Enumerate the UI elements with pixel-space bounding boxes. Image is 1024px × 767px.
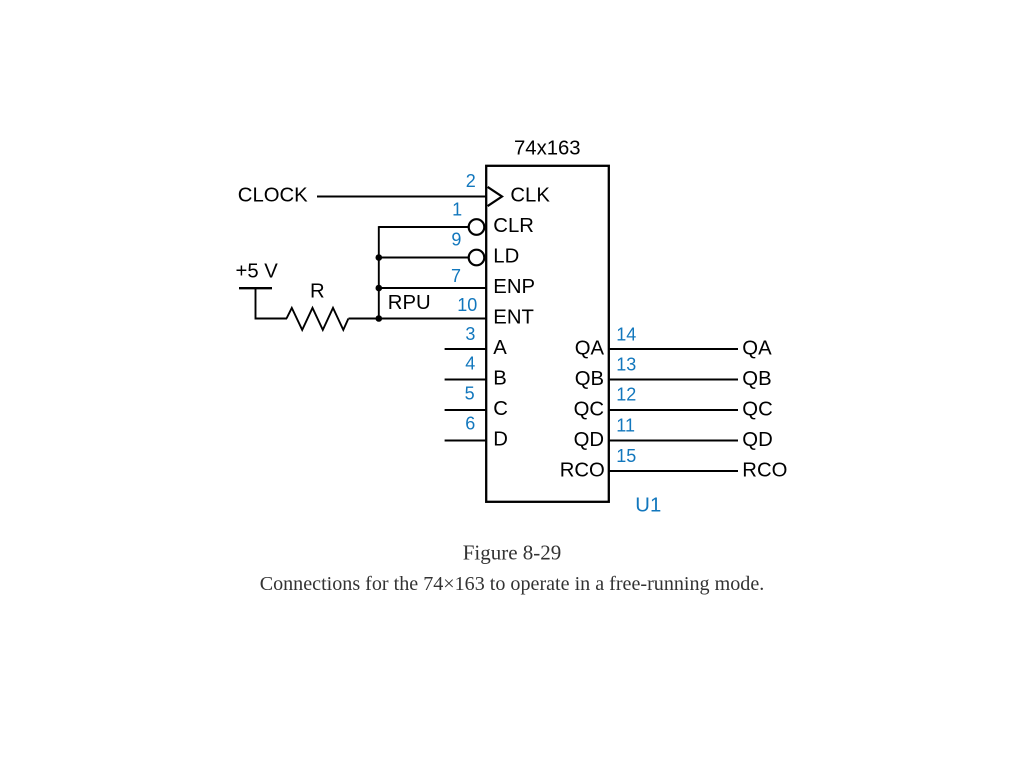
resistor R zigzag	[287, 308, 349, 330]
svg-text:4: 4	[465, 353, 475, 373]
svg-text:QC: QC	[742, 399, 772, 421]
svg-text:QB: QB	[742, 368, 771, 390]
wire bus to ENP	[379, 287, 487, 289]
wire supply bar down to resistor	[256, 288, 288, 318]
svg-text:12: 12	[616, 385, 636, 405]
input stub wire C (pin 5)	[445, 409, 487, 411]
svg-text:CLOCK: CLOCK	[238, 184, 308, 206]
svg-text:LD: LD	[493, 246, 519, 268]
wire bus to LD bubble	[379, 257, 469, 259]
svg-text:14: 14	[616, 325, 636, 345]
svg-text:RCO: RCO	[742, 460, 787, 482]
svg-text:ENT: ENT	[493, 307, 534, 329]
svg-text:ENP: ENP	[493, 276, 535, 298]
svg-text:10: 10	[457, 295, 477, 315]
output wire QD (pin 11)	[608, 440, 738, 442]
svg-text:13: 13	[616, 355, 636, 375]
output wire RCO (pin 15)	[608, 470, 738, 472]
svg-text:11: 11	[616, 416, 635, 436]
svg-text:Figure 8-29: Figure 8-29	[463, 541, 562, 565]
svg-text:QC: QC	[574, 398, 604, 420]
svg-text:2: 2	[466, 171, 476, 191]
output wire QB (pin 13)	[608, 379, 738, 381]
svg-text:6: 6	[465, 414, 475, 434]
junction dot at ENP	[376, 285, 383, 292]
svg-text:R: R	[310, 280, 325, 302]
svg-text:B: B	[493, 368, 507, 390]
svg-text:QA: QA	[575, 337, 605, 359]
svg-text:+5 V: +5 V	[236, 260, 279, 282]
svg-text:QB: QB	[575, 368, 604, 390]
wire RPU node to ENT	[349, 318, 488, 320]
svg-text:QA: QA	[742, 338, 772, 360]
wire CLOCK to pin 2	[317, 196, 487, 198]
svg-text:3: 3	[465, 324, 475, 344]
clock edge-trigger triangle on CLK	[488, 187, 502, 206]
svg-text:9: 9	[451, 229, 461, 249]
junction dot RPU at ENT	[376, 315, 383, 322]
svg-text:QD: QD	[574, 429, 604, 451]
svg-text:CLK: CLK	[510, 185, 550, 207]
svg-text:Connections for the 74×163 to: Connections for the 74×163 to operate in…	[260, 573, 765, 595]
input stub wire D (pin 6)	[445, 440, 487, 442]
svg-text:A: A	[493, 337, 507, 359]
inversion bubble on LD (pin 9)	[469, 250, 485, 266]
input stub wire B (pin 4)	[445, 379, 487, 381]
output wire QC (pin 12)	[608, 409, 738, 411]
svg-text:7: 7	[451, 266, 461, 286]
junction dot at LD	[376, 254, 383, 261]
inversion bubble on CLR (pin 1)	[469, 219, 485, 235]
svg-text:U1: U1	[635, 494, 661, 516]
svg-text:QD: QD	[742, 429, 772, 451]
svg-text:RCO: RCO	[560, 459, 605, 481]
svg-text:74x163: 74x163	[514, 138, 581, 160]
svg-text:RPU: RPU	[388, 292, 431, 314]
vertical bus wire tying CLR/LD/ENP/ENT	[378, 226, 380, 318]
input stub wire A (pin 3)	[445, 348, 487, 350]
svg-text:5: 5	[465, 383, 475, 403]
output wire QA (pin 14)	[608, 348, 738, 350]
+5 V supply bar	[239, 287, 272, 289]
svg-text:15: 15	[616, 446, 636, 466]
svg-text:D: D	[493, 429, 508, 451]
IC U1 body (74x163)	[486, 166, 609, 502]
wire bus to CLR bubble	[379, 226, 469, 228]
svg-text:C: C	[493, 398, 508, 420]
svg-text:CLR: CLR	[493, 215, 534, 237]
svg-text:1: 1	[452, 200, 462, 220]
